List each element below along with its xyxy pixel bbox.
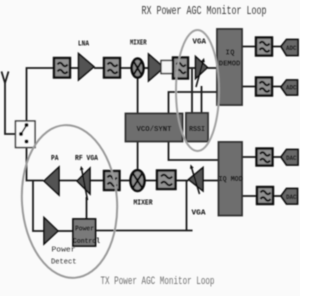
wire IQ demod to filter5 — [242, 86, 256, 88]
wire RF VGA to filter8 — [91, 180, 105, 182]
svg-text:VGA: VGA — [192, 210, 207, 218]
DAC2 — [281, 189, 298, 205]
RX VGA U1 — [196, 57, 208, 88]
svg-text:Power: Power — [75, 226, 94, 234]
wire antenna right arm — [5, 72, 9, 84]
svg-text:DAC: DAC — [286, 194, 297, 201]
ADC2 — [281, 80, 298, 95]
svg-text:IQ: IQ — [226, 50, 235, 58]
wire mixer2 to filter9 — [145, 180, 158, 182]
wire IQ mod to filter7 — [242, 195, 257, 197]
filter F2 — [104, 58, 120, 78]
VCO/SYNT box — [126, 114, 183, 142]
wire PA to RF VGA — [60, 180, 78, 182]
filter F4 — [256, 38, 272, 56]
wire IQ mod to filter6 — [242, 156, 257, 158]
RSSI box — [186, 113, 208, 142]
wire mixer1 to amp — [143, 67, 148, 69]
svg-text:ADC: ADC — [286, 85, 297, 92]
TX VGA U4 — [189, 165, 204, 195]
filter F1 — [54, 58, 70, 78]
wire filter1 to LNA — [70, 67, 79, 69]
wire filter4 to ADC1 — [272, 46, 281, 48]
svg-text:RF VGA: RF VGA — [75, 155, 99, 163]
svg-text:Power: Power — [52, 247, 76, 255]
svg-text:DAC: DAC — [286, 155, 297, 162]
wire antenna stem — [5, 83, 16, 134]
svg-text:DEMOD: DEMOD — [219, 61, 241, 69]
svg-text:LNA: LNA — [78, 41, 90, 49]
switch box SW1 — [16, 121, 36, 148]
PA amplifier — [44, 167, 59, 195]
wire power detect to power control — [58, 230, 73, 232]
filter F8 — [104, 171, 120, 190]
svg-text:Detect: Detect — [51, 259, 77, 267]
mixer M2 — [131, 170, 145, 191]
DAC1 — [281, 150, 298, 166]
filter F9 — [157, 171, 176, 190]
matching box — [161, 61, 174, 74]
RF VGA amplifier — [77, 166, 90, 200]
wire RF VGA control to power control — [86, 197, 88, 219]
wire switch to RX chain (up) — [27, 68, 55, 121]
ADC1 — [281, 40, 298, 56]
wire filter7 to DAC2 — [273, 195, 281, 197]
wire filter9 to TX VGA — [176, 180, 189, 182]
svg-text:RSSI: RSSI — [189, 126, 205, 134]
IQ DEMOD box U2 — [217, 29, 242, 105]
power detect amplifier — [44, 218, 58, 245]
svg-text:MIXER: MIXER — [134, 199, 154, 207]
svg-text:PA: PA — [51, 155, 59, 163]
wire antenna left arm — [2, 72, 6, 84]
wire VCO to IQ demod LO — [169, 92, 218, 114]
wire filter3 to VGA — [188, 67, 196, 69]
svg-text:VCO/SYNT: VCO/SYNT — [137, 126, 172, 134]
filter F3 — [173, 58, 188, 79]
power control box — [73, 219, 96, 246]
wire filter6 to DAC1 — [273, 156, 282, 158]
filter F7 — [257, 187, 273, 204]
wire filter5 to ADC2 — [272, 86, 281, 88]
svg-text:RX Power AGC Monitor Loop: RX Power AGC Monitor Loop — [142, 5, 267, 18]
wire filter2 to mixer1 — [120, 67, 132, 69]
IQ MOD box U3 — [219, 142, 243, 216]
svg-text:MIXER: MIXER — [130, 40, 147, 48]
RX loop ellipse — [176, 30, 219, 151]
wire coupler to power detect — [33, 181, 44, 232]
filter F5 — [256, 78, 272, 96]
wire RSSI to VGA control — [201, 86, 203, 114]
svg-text:IQ MOD: IQ MOD — [219, 176, 243, 184]
LNA amplifier — [79, 54, 95, 81]
svg-text:TX Power AGC Monitor Loop: TX Power AGC Monitor Loop — [101, 276, 215, 288]
svg-text:VGA: VGA — [193, 39, 207, 47]
wire power control to TX VGA — [96, 230, 193, 232]
wire mixer2 LO from VCO — [137, 142, 139, 171]
svg-text:ADC: ADC — [286, 45, 297, 52]
wire switch to TX chain (down) — [27, 148, 44, 181]
wire VGA to IQ demod — [208, 67, 218, 69]
wire mixer1 LO from VCO — [137, 78, 139, 114]
wire LNA to filter2 — [94, 67, 104, 69]
wire RSSI tap — [191, 68, 193, 114]
wire TX VGA control vertical — [186, 181, 188, 231]
mixer M1 — [132, 59, 144, 78]
wire TX VGA to IQ mod — [203, 180, 219, 182]
wire IQ demod to filter4 — [242, 46, 256, 48]
wire VCO to IQ mod LO — [169, 142, 219, 161]
filter F6 — [257, 149, 273, 166]
svg-text:Control: Control — [73, 238, 100, 246]
amplifier A2 — [149, 54, 165, 81]
wire filter8 to mixer2 — [120, 180, 131, 182]
TX loop ellipse — [17, 122, 122, 281]
